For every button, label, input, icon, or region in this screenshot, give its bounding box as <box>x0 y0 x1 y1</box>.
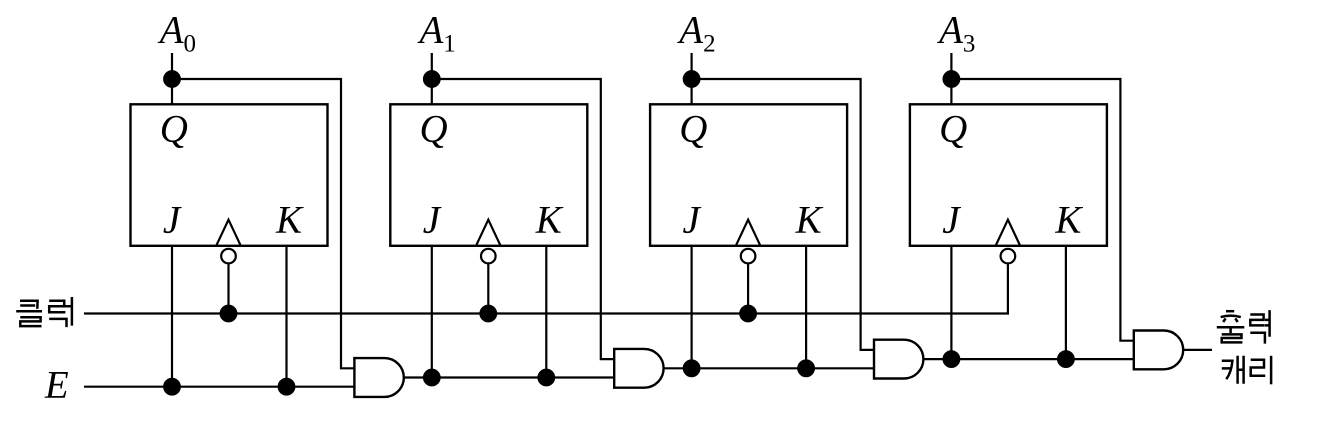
label output carry "캐리" (drawn hangul) <box>1222 356 1271 385</box>
clock inverter bubble of U4 <box>1001 249 1016 264</box>
node clock junction dot at U2 <box>481 306 497 322</box>
node J2 junction dot <box>424 370 440 386</box>
node A0 junction dot <box>164 71 180 87</box>
wire A0 vertical into FF1 Q <box>171 53 173 104</box>
wire clock bubble of U4 down to clock line <box>1007 263 1009 314</box>
wire J pin of U2 down <box>431 246 433 378</box>
svg-text:J: J <box>163 199 182 242</box>
node clock junction dot at U3 <box>740 306 756 322</box>
JK flip-flop U1 box <box>131 104 328 246</box>
wire Q1 feedback from A1 dot to AND gate G2 top input <box>432 79 614 359</box>
svg-text:K: K <box>1054 199 1083 242</box>
label clock "클럭" (drawn hangul) <box>16 297 72 327</box>
svg-text:K: K <box>275 199 304 242</box>
wire clock bubble of U3 down to clock line <box>747 263 749 313</box>
svg-text:E: E <box>44 363 69 406</box>
AND gate G3 <box>874 340 923 379</box>
wire Q3 feedback from A3 dot to AND gate G4 top input <box>951 79 1133 341</box>
node clock junction dot at U1 <box>221 306 237 322</box>
clock edge triangle of U1 <box>216 220 241 246</box>
wire clock bubble of U1 down to clock line <box>227 263 229 313</box>
wire A2 vertical into FF3 Q <box>690 53 692 104</box>
svg-text:Q: Q <box>679 108 707 151</box>
node K3 junction dot <box>798 361 814 377</box>
JK flip-flop U4 box <box>910 104 1107 246</box>
wire E enable line <box>84 386 354 388</box>
wire clock line <box>84 312 1009 314</box>
svg-text:A: A <box>936 9 963 52</box>
svg-text:A: A <box>676 9 703 52</box>
svg-text:1: 1 <box>443 31 456 58</box>
wire A3 vertical into FF4 Q <box>950 53 952 104</box>
wire Q2 feedback from A2 dot to AND gate G3 top input <box>692 79 874 350</box>
wire J pin of U4 down <box>950 246 952 359</box>
svg-text:Q: Q <box>160 108 188 151</box>
clock inverter bubble of U1 <box>221 249 236 264</box>
svg-text:K: K <box>795 199 824 242</box>
svg-text:A: A <box>157 9 184 52</box>
JK flip-flop U2 box <box>390 104 587 246</box>
wire K pin of U3 down <box>805 246 807 368</box>
svg-text:3: 3 <box>963 31 976 58</box>
node K1 junction dot <box>279 379 295 395</box>
svg-text:0: 0 <box>184 31 197 58</box>
svg-text:J: J <box>423 199 442 242</box>
svg-text:J: J <box>942 199 961 242</box>
svg-text:A: A <box>417 9 444 52</box>
wire K pin of U4 down <box>1065 246 1067 359</box>
wire J pin of U1 down <box>171 246 173 387</box>
clock inverter bubble of U3 <box>741 249 756 264</box>
node J1 junction dot <box>164 379 180 395</box>
AND gate G2 <box>614 349 663 388</box>
svg-text:2: 2 <box>703 31 716 58</box>
node J3 junction dot <box>684 361 700 377</box>
node J4 junction dot <box>944 351 960 367</box>
node K4 junction dot <box>1058 351 1074 367</box>
wire G3 output <box>923 358 1133 360</box>
node A3 junction dot <box>944 71 960 87</box>
wire A1 vertical into FF2 Q <box>431 53 433 104</box>
svg-text:Q: Q <box>420 108 448 151</box>
clock edge triangle of U2 <box>476 220 501 246</box>
AND gate G1 <box>354 358 403 397</box>
wire Q0 feedback from A0 dot to AND gate G1 top input <box>172 79 354 368</box>
wire G4 output <box>1183 349 1212 351</box>
node A2 junction dot <box>684 71 700 87</box>
wire K pin of U1 down <box>285 246 287 387</box>
node A1 junction dot <box>424 71 440 87</box>
svg-text:K: K <box>535 199 564 242</box>
clock inverter bubble of U2 <box>481 249 496 264</box>
node K2 junction dot <box>539 370 555 386</box>
wire clock bubble of U2 down to clock line <box>487 263 489 313</box>
wire J pin of U3 down <box>690 246 692 368</box>
label output carry "출력" (drawn hangul) <box>1217 310 1270 344</box>
wire G2 output <box>664 367 874 369</box>
wire G1 output <box>404 376 614 378</box>
wire K pin of U2 down <box>545 246 547 378</box>
JK flip-flop U3 box <box>650 104 847 246</box>
svg-text:Q: Q <box>939 108 967 151</box>
svg-text:J: J <box>683 199 702 242</box>
clock edge triangle of U3 <box>736 220 761 246</box>
AND gate G4 <box>1134 331 1183 370</box>
clock edge triangle of U4 <box>996 220 1021 246</box>
